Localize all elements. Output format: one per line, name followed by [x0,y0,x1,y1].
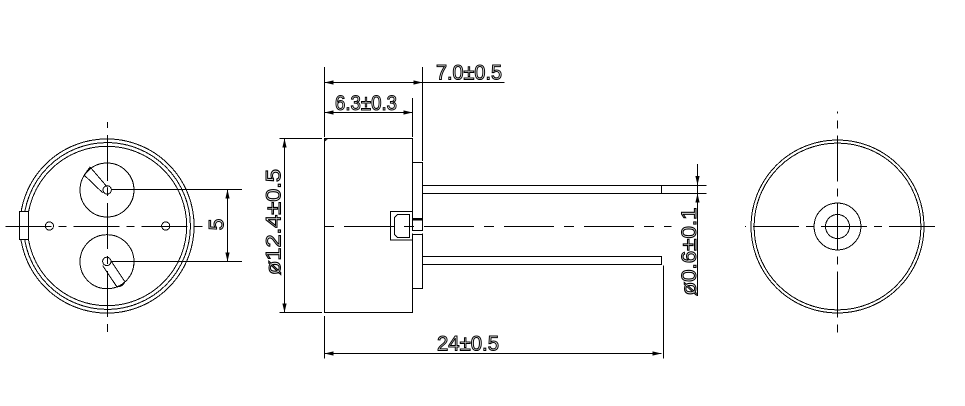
svg-text:ø0.6±0.1: ø0.6±0.1 [678,208,701,296]
side view nib inner chamfered face [395,215,410,238]
side view lower terminal bottom edge [412,234,423,236]
front view left small hole [45,222,53,230]
dimension 7.0 extension line right [422,67,424,161]
front view top lead hole [80,163,134,217]
side view horizontal centerline [318,226,671,228]
dimension 7.0 line [325,82,505,84]
dimension dia 0.6 extension line lower [662,193,707,195]
dimension 24 line [325,353,662,355]
dimension 5 extension line lower [111,261,242,263]
back view outer rim rings [751,140,924,313]
svg-text:24±0.5: 24±0.5 [437,333,499,356]
side view lower lead [423,256,662,265]
side view corner chamfer mark [324,139,328,142]
svg-text:5: 5 [206,219,229,231]
side view lower terminal top edge [412,230,423,232]
dimension dia 0.6 extension line upper [662,185,707,187]
dimension dia 12.4 arrow down [282,304,286,313]
dimension dia 0.6 arrow up [695,194,699,203]
dimension dia 12.4 extension line top [280,138,323,140]
side view rear step flange [412,163,423,289]
dimension 6.3 extension line [412,98,414,137]
front view top bent lead [84,167,108,193]
svg-text:6.3±0.3: 6.3±0.3 [335,92,397,115]
back view vertical centerline [837,112,839,339]
front view bottom bent lead [103,260,125,287]
front view bottom lead hole [80,235,134,289]
dimension 7.0 arrow left [325,80,334,84]
dimension 24 arrow left [325,351,334,355]
front view horizontal centerline [6,226,203,228]
dimension dia 12.4 extension line bottom [280,312,323,314]
side view body outline [324,138,413,313]
dimension dia 0.6 arrow down [695,176,699,185]
svg-text:7.0±0.5: 7.0±0.5 [436,62,502,85]
front view right small hole [162,222,170,230]
dimension 24 extension line left [324,316,326,359]
dimension 5 arrow down [225,253,229,262]
dimension dia 0.6 line [697,164,699,296]
dimension dia 12.4 arrow up [282,139,286,148]
front view top lead tip [103,186,111,194]
side view lower terminal gap [412,231,423,234]
front view vertical centerline [107,122,109,333]
dimension 24 arrow right [653,351,662,355]
dimension 5 line [227,190,229,262]
front view outer rim rings [20,139,194,313]
back view boss circle [814,203,861,250]
dimension 7.0 arrow right [414,80,423,84]
svg-text:ø12.4±0.5: ø12.4±0.5 [263,169,286,275]
dimension 5 extension line upper [112,189,243,191]
dimension 6.3 line [325,112,413,114]
dimension 24 extension line right [663,266,665,359]
back view center hole [826,215,850,239]
side view upper terminal (filled) [412,218,423,221]
back view horizontal centerline [745,226,935,228]
dimension 7.0 extension line left [324,67,326,137]
side view upper lead [423,185,662,194]
dimension 6.3 arrow right [404,110,413,114]
dimension dia 12.4 line [284,139,286,313]
side view nib outer box [391,212,413,241]
dimension 6.3 arrow left [325,110,334,114]
dimension 5 arrow up [225,190,229,199]
front view side notch [20,212,29,240]
front view bottom lead tip [103,257,111,265]
